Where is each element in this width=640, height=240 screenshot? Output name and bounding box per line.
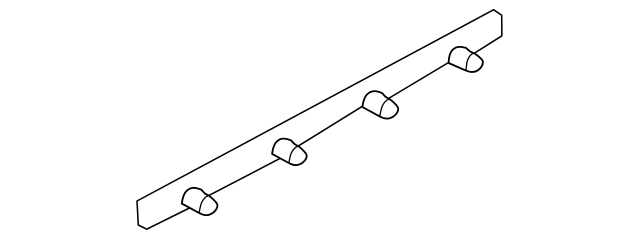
- clip 3: [362, 91, 398, 118]
- clip 1: [182, 188, 218, 215]
- molding strip outline: [137, 10, 502, 230]
- clip 2: [272, 139, 307, 166]
- clip 4: [447, 45, 483, 74]
